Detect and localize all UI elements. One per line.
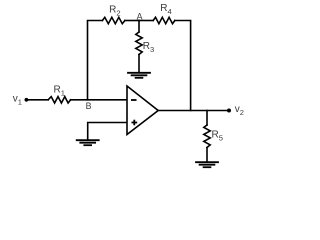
wire v1 to R1 xyxy=(26,99,48,101)
wire R5 to ground xyxy=(206,148,208,162)
wire R2 to node A xyxy=(125,20,139,22)
resistor R1 xyxy=(48,97,70,103)
terminal dot v1 xyxy=(25,98,29,102)
svg-text:B: B xyxy=(86,101,92,111)
terminal dot v2 xyxy=(227,109,231,113)
ground under R3 xyxy=(127,73,151,78)
resistor R5 xyxy=(204,125,210,148)
wire R3 to ground xyxy=(138,55,140,73)
wire op-amp output xyxy=(158,110,229,112)
wire R1 to node B to op-amp minus input xyxy=(71,99,127,101)
ground under R5 xyxy=(195,162,219,167)
resistor R4 xyxy=(153,17,175,23)
op-amp plus sign xyxy=(132,120,138,126)
wire node A to R4 xyxy=(139,20,153,22)
wire node A stub down to R3 xyxy=(138,21,140,33)
op-amp U1 xyxy=(127,86,158,135)
op-amp minus sign xyxy=(131,99,137,101)
svg-text:A: A xyxy=(137,11,143,21)
ground at op-amp plus input xyxy=(76,140,100,145)
wire op-amp plus input to ground branch xyxy=(88,123,127,140)
wire R5 stub from output xyxy=(206,111,208,126)
wire top-left from corner to R2 xyxy=(88,21,103,100)
resistor R2 xyxy=(102,17,125,23)
resistor R3 xyxy=(136,32,142,55)
wire R4 to top-right corner down to output xyxy=(175,21,191,111)
